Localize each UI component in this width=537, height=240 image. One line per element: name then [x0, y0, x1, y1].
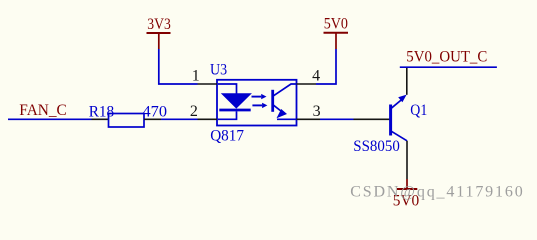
optocoupler U3 body box (Q817)	[217, 80, 297, 126]
resistor R18	[92, 114, 162, 128]
power port 5V0 (bottom)	[393, 179, 420, 209]
svg-text:SS8050: SS8050	[353, 138, 400, 155]
wire pin 3 to Q1 base	[320, 118, 354, 120]
svg-text:5V0: 5V0	[324, 16, 348, 33]
Q1 collector pin (down)	[406, 141, 408, 179]
LED inside U3	[218, 84, 251, 119]
power port 3V3	[147, 16, 171, 49]
wire 3V3 to pin 1	[159, 49, 198, 84]
svg-text:4: 4	[312, 68, 320, 85]
svg-text:Q1: Q1	[410, 102, 427, 119]
svg-text:3V3: 3V3	[147, 16, 171, 33]
wire 5V0 to pin 4	[316, 49, 336, 84]
transistor Q1	[391, 95, 407, 141]
svg-text:R18: R18	[89, 104, 115, 121]
pin 4	[297, 83, 317, 85]
svg-text:FAN_C: FAN_C	[19, 102, 67, 119]
phototransistor inside U3	[273, 84, 297, 119]
svg-text:U3: U3	[210, 61, 227, 78]
Q1 emitter pin (up)	[406, 67, 408, 95]
svg-text:CSDN@qq_41179160: CSDN@qq_41179160	[350, 184, 523, 201]
pin 2	[198, 118, 218, 120]
power port 5V0 (top)	[324, 16, 349, 50]
wire 5V0_OUT_C	[400, 66, 497, 68]
wire R18 to pin 2	[161, 118, 198, 120]
coupling arrow upper	[252, 94, 267, 99]
pin 1	[198, 83, 218, 85]
Q1 base pin	[354, 118, 390, 120]
svg-text:3: 3	[313, 103, 321, 120]
svg-text:470: 470	[143, 104, 168, 121]
coupling arrow lower	[252, 103, 267, 108]
svg-text:Q817: Q817	[210, 128, 244, 145]
svg-text:2: 2	[190, 103, 198, 120]
wire FAN_C to R18	[8, 118, 92, 120]
pin 3	[297, 118, 321, 120]
svg-text:1: 1	[192, 68, 200, 85]
svg-text:5V0_OUT_C: 5V0_OUT_C	[406, 49, 487, 66]
